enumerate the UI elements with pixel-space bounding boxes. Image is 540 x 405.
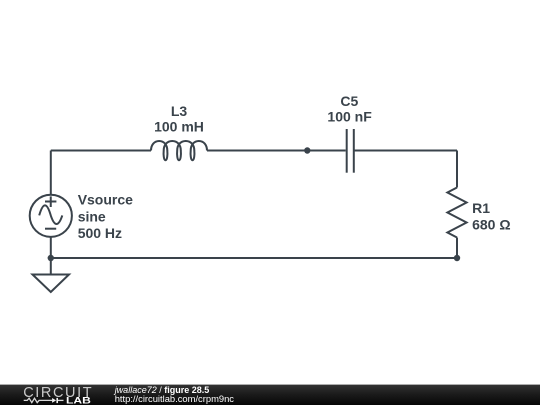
svg-text:LAB: LAB — [66, 394, 91, 405]
ground symbol — [33, 275, 70, 293]
voltage source sine symbol — [39, 205, 62, 224]
node junction dot bottom-left — [48, 255, 54, 261]
wire left vertical — [50, 151, 52, 195]
voltage source V1 circle — [30, 195, 72, 237]
voltage source minus sign — [45, 228, 56, 230]
svg-text:C5: C5 — [340, 93, 358, 109]
wire source to bottom node — [50, 237, 52, 275]
svg-text:sine: sine — [78, 209, 106, 225]
svg-text:680 Ω: 680 Ω — [472, 216, 510, 232]
wire bottom horizontal — [51, 257, 457, 259]
svg-text:L3: L3 — [171, 103, 188, 119]
svg-text:Vsource: Vsource — [78, 191, 133, 207]
svg-text:http://circuitlab.com/crpm9nc: http://circuitlab.com/crpm9nc — [115, 393, 235, 404]
wire top-left horizontal — [51, 150, 151, 152]
node junction dot bottom-right — [454, 255, 460, 261]
wire resistor bottom — [456, 238, 458, 259]
svg-text:100 mH: 100 mH — [154, 119, 204, 135]
svg-text:100 nF: 100 nF — [327, 108, 372, 124]
capacitor C5 left plate — [346, 129, 348, 173]
inductor L3 coil — [151, 141, 207, 160]
resistor R1 zigzag — [447, 188, 466, 238]
svg-text:500 Hz: 500 Hz — [78, 225, 122, 241]
voltage source plus sign — [45, 196, 56, 207]
wire inductor to capacitor — [207, 150, 346, 152]
capacitor C5 right plate — [353, 129, 355, 173]
wire right vertical to resistor — [456, 151, 458, 188]
logo resistor zigzag — [24, 398, 52, 402]
wire capacitor to top-right corner — [354, 150, 457, 152]
svg-text:R1: R1 — [472, 200, 490, 216]
logo diode symbol — [52, 398, 56, 403]
node junction dot — [304, 147, 310, 153]
